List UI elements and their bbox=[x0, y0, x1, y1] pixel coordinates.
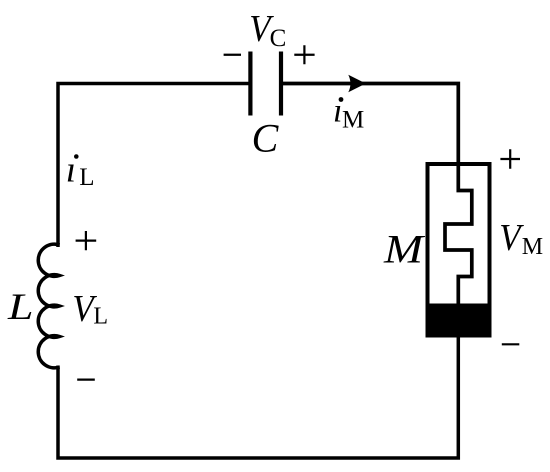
svg-text:C: C bbox=[252, 116, 280, 161]
svg-text:M: M bbox=[342, 106, 364, 133]
memristor M bottom filled bar bbox=[426, 304, 492, 338]
inductor L coil bbox=[38, 244, 59, 368]
svg-text:L: L bbox=[79, 164, 94, 191]
capacitor C left plate bbox=[248, 52, 252, 116]
svg-text:L: L bbox=[7, 287, 34, 328]
svg-text:C: C bbox=[270, 25, 287, 52]
dot of i_M bbox=[339, 97, 344, 102]
minus sign left of capacitor bbox=[224, 54, 241, 56]
svg-text:M: M bbox=[383, 227, 426, 272]
capacitor C right plate bbox=[279, 52, 283, 116]
wire top-left segment bbox=[58, 84, 249, 248]
plus sign above inductor bbox=[76, 231, 97, 250]
svg-text:V: V bbox=[499, 217, 524, 259]
minus sign bottom-right of memristor bbox=[502, 343, 520, 345]
dot of i_L bbox=[74, 154, 79, 159]
plus sign top-right of memristor bbox=[500, 149, 520, 169]
current arrow i_M on top wire bbox=[348, 75, 366, 93]
wire bottom loop (right-lower, bottom, left-lower) bbox=[58, 336, 458, 458]
wire top-right segment into memristor zigzag bbox=[281, 84, 472, 306]
svg-text:L: L bbox=[93, 304, 108, 330]
minus sign below inductor bbox=[77, 379, 95, 381]
svg-text:M: M bbox=[522, 234, 543, 260]
memristor M box outline bbox=[428, 164, 490, 336]
plus sign right of capacitor bbox=[294, 45, 314, 64]
